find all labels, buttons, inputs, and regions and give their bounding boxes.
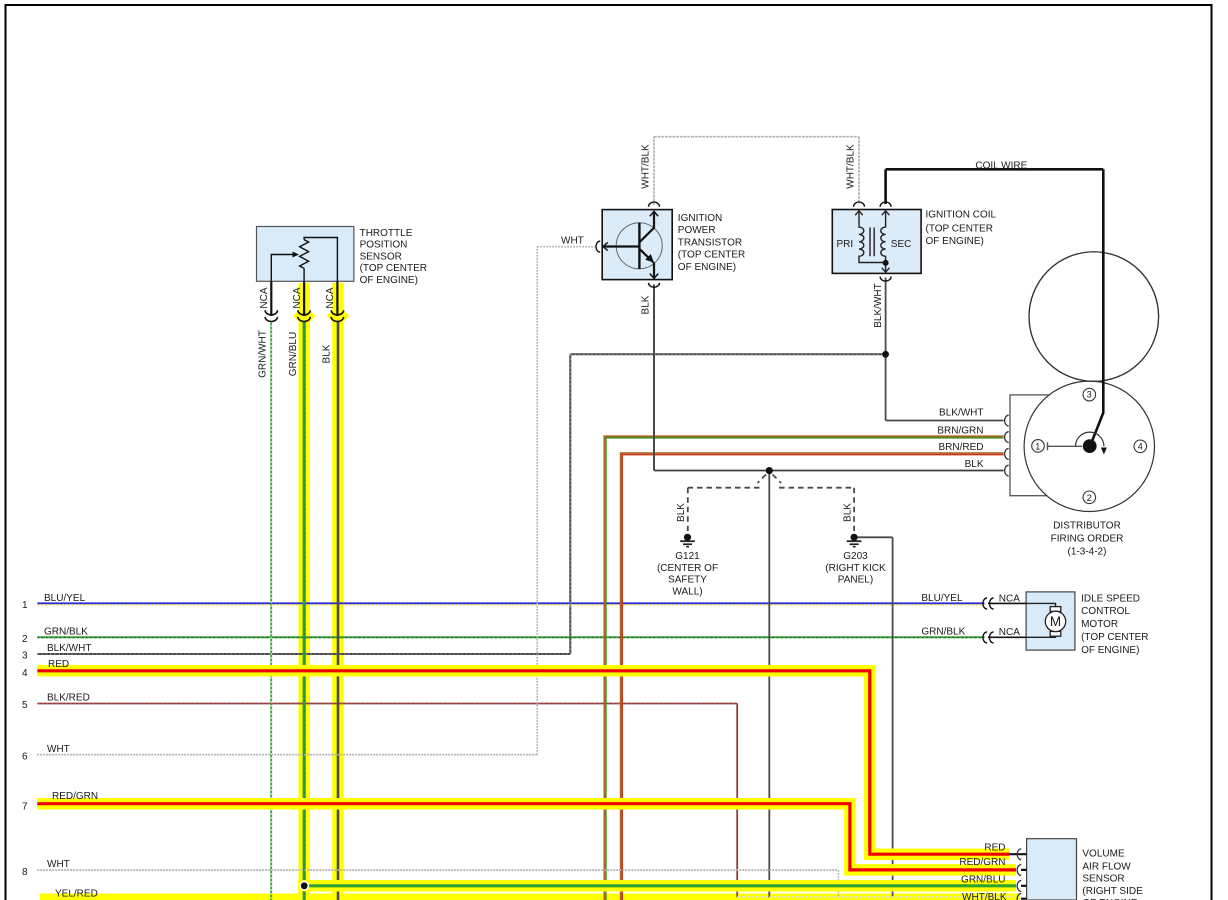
svg-text:WHT: WHT	[47, 744, 70, 755]
svg-text:(TOP CENTER: (TOP CENTER	[360, 263, 427, 274]
svg-text:2: 2	[1087, 493, 1092, 503]
svg-text:POSITION: POSITION	[360, 240, 408, 251]
svg-text:WHT/BLK: WHT/BLK	[641, 144, 652, 189]
svg-text:VOLUME: VOLUME	[1082, 849, 1125, 860]
svg-text:WHT/BLK: WHT/BLK	[962, 892, 1007, 900]
svg-text:1: 1	[1035, 442, 1040, 452]
svg-text:3: 3	[22, 651, 28, 662]
svg-text:(CENTER OF: (CENTER OF	[657, 563, 718, 574]
svg-text:G203: G203	[843, 551, 868, 562]
svg-text:NCA: NCA	[292, 287, 303, 308]
svg-text:OF ENGINE): OF ENGINE)	[1081, 645, 1139, 656]
svg-text:SENSOR: SENSOR	[360, 251, 402, 262]
svg-text:NCA: NCA	[325, 287, 336, 308]
svg-text:TRANSISTOR: TRANSISTOR	[678, 237, 742, 248]
svg-text:BRN/RED: BRN/RED	[938, 442, 983, 453]
svg-text:PRI: PRI	[837, 239, 854, 250]
svg-text:IDLE SPEED: IDLE SPEED	[1081, 593, 1140, 604]
svg-text:BLK: BLK	[322, 344, 333, 363]
svg-text:SENSOR: SENSOR	[1082, 874, 1124, 885]
svg-text:2: 2	[22, 634, 28, 645]
svg-text:(1-3-4-2): (1-3-4-2)	[1068, 547, 1107, 558]
svg-text:NCA: NCA	[999, 627, 1020, 638]
svg-text:WHT/BLK: WHT/BLK	[846, 144, 857, 189]
svg-text:(TOP CENTER: (TOP CENTER	[1081, 632, 1148, 643]
svg-text:BLK/WHT: BLK/WHT	[939, 408, 983, 419]
svg-text:FIRING ORDER: FIRING ORDER	[1051, 534, 1124, 545]
svg-text:BRN/GRN: BRN/GRN	[937, 426, 983, 437]
svg-text:OF ENGINE): OF ENGINE)	[360, 275, 418, 286]
svg-text:RED: RED	[48, 659, 69, 670]
svg-text:M: M	[1050, 614, 1061, 629]
svg-text:OF ENGINE): OF ENGINE)	[678, 262, 736, 273]
svg-text:4: 4	[22, 668, 28, 679]
svg-text:SAFETY: SAFETY	[668, 575, 707, 586]
svg-text:BLK/WHT: BLK/WHT	[873, 283, 884, 327]
svg-text:GRN/BLK: GRN/BLK	[44, 627, 88, 638]
svg-text:3: 3	[1087, 389, 1092, 399]
svg-text:GRN/BLU: GRN/BLU	[961, 875, 1005, 886]
svg-text:BLU/YEL: BLU/YEL	[44, 593, 86, 604]
svg-text:8: 8	[22, 867, 28, 878]
svg-text:COIL WIRE: COIL WIRE	[975, 160, 1027, 171]
svg-text:BLK: BLK	[843, 503, 854, 522]
svg-text:7: 7	[22, 802, 28, 813]
svg-text:NCA: NCA	[259, 287, 270, 308]
svg-text:GRN/BLK: GRN/BLK	[921, 627, 965, 638]
svg-text:DISTRIBUTOR: DISTRIBUTOR	[1053, 521, 1121, 532]
svg-text:OF ENGINE): OF ENGINE)	[926, 236, 984, 247]
svg-text:(TOP CENTER: (TOP CENTER	[926, 224, 993, 235]
svg-text:CONTROL: CONTROL	[1081, 606, 1130, 617]
svg-text:(RIGHT KICK: (RIGHT KICK	[825, 563, 886, 574]
svg-text:PANEL): PANEL)	[838, 575, 873, 586]
svg-text:BLK/RED: BLK/RED	[47, 693, 90, 704]
svg-text:BLK/WHT: BLK/WHT	[47, 643, 91, 654]
svg-text:BLU/YEL: BLU/YEL	[921, 593, 963, 604]
svg-text:BLK: BLK	[965, 459, 984, 470]
svg-text:SEC: SEC	[891, 239, 912, 250]
svg-text:NCA: NCA	[999, 593, 1020, 604]
svg-text:1: 1	[22, 600, 28, 611]
svg-text:RED: RED	[984, 842, 1005, 853]
svg-text:BLK: BLK	[676, 503, 687, 522]
svg-text:IGNITION COIL: IGNITION COIL	[926, 210, 997, 221]
svg-text:RED/GRN: RED/GRN	[959, 857, 1005, 868]
svg-text:AIR FLOW: AIR FLOW	[1082, 861, 1131, 872]
svg-text:GRN/BLU: GRN/BLU	[288, 332, 299, 376]
svg-text:GRN/WHT: GRN/WHT	[258, 330, 269, 378]
svg-text:YEL/RED: YEL/RED	[55, 889, 98, 900]
svg-text:WHT: WHT	[561, 236, 584, 247]
svg-text:THROTTLE: THROTTLE	[360, 228, 413, 239]
svg-text:(TOP CENTER: (TOP CENTER	[678, 250, 745, 261]
svg-text:G121: G121	[675, 551, 700, 562]
svg-text:WHT: WHT	[47, 859, 70, 870]
svg-text:IGNITION: IGNITION	[678, 213, 722, 224]
svg-text:POWER: POWER	[678, 225, 716, 236]
svg-text:6: 6	[22, 751, 28, 762]
svg-text:4: 4	[1138, 442, 1143, 452]
svg-text:RED/GRN: RED/GRN	[52, 791, 98, 802]
svg-text:(RIGHT SIDE: (RIGHT SIDE	[1082, 886, 1143, 897]
svg-text:WALL): WALL)	[672, 586, 702, 597]
svg-text:BLK: BLK	[641, 295, 652, 314]
svg-text:5: 5	[22, 700, 28, 711]
svg-text:MOTOR: MOTOR	[1081, 619, 1118, 630]
